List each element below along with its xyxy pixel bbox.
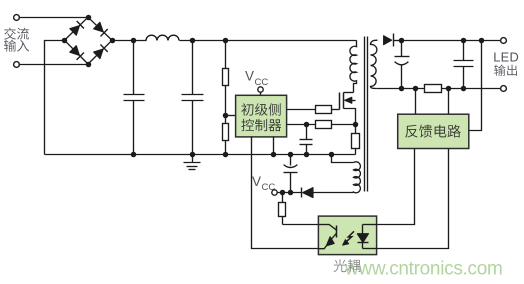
MOSFET Q1 source lead <box>344 109 356 125</box>
transformer T1 primary winding <box>350 40 357 92</box>
wire: R6 to optocoupler collector <box>283 224 319 226</box>
optocoupler LED <box>362 225 364 234</box>
output capacitor C5 (polarized) <box>401 41 403 57</box>
inductor L1 <box>146 35 179 40</box>
optocoupler U2 box (光耦) <box>318 216 376 255</box>
junction: VCC at R6 <box>280 190 286 196</box>
junction: bridge right node <box>110 38 116 44</box>
resistor R5 (source sense) <box>355 125 357 134</box>
wire: bridge negative node to bottom rail <box>45 41 65 155</box>
resistor R7 (output current sense) <box>425 85 442 93</box>
wire: bottom AC terminal to bridge bottom node <box>19 64 89 66</box>
LED output terminal (-) <box>501 86 507 92</box>
wire: R1 to divider node <box>225 86 227 116</box>
filter capacitor C1 <box>133 41 135 95</box>
diode D5 (VCC rectifier) <box>303 188 313 198</box>
output rectifier D6 <box>384 36 392 45</box>
junction: C1 bottom <box>131 152 137 158</box>
wire: primary ground bottom rail <box>45 154 356 156</box>
transformer T1 core <box>364 37 366 192</box>
optocoupler phototransistor <box>319 224 330 226</box>
resistor R2 <box>225 116 227 124</box>
filter capacitor C2 <box>192 41 194 95</box>
wire: output return rail (right part) <box>442 88 501 90</box>
bridge diode D1 (left to top) <box>70 26 80 36</box>
wire: sense right tap to feedback <box>448 89 450 115</box>
bridge rectifier frame <box>65 17 113 64</box>
VCC capacitor C4 <box>290 155 292 166</box>
junction: VCC at C4 <box>288 190 294 196</box>
ground symbol <box>192 155 194 163</box>
capacitor C3 (CS filter) <box>306 125 308 140</box>
resistor R6 (opto bias) <box>282 193 284 203</box>
resistor R1 <box>223 69 229 86</box>
bridge diode D4 (bottom to right) <box>94 49 104 59</box>
MOSFET Q1 drain lead <box>344 92 354 94</box>
svg-text:V: V <box>245 69 254 84</box>
AC input terminal (bottom) <box>14 62 20 68</box>
wire: controller gate pin <box>287 109 316 111</box>
junction: sense left tap <box>413 86 419 92</box>
junction: C6 top <box>461 38 467 44</box>
bridge diode D3 (left to bottom) <box>70 46 80 56</box>
junction: aux return at rail <box>329 152 335 158</box>
LED output terminal (+) <box>501 38 507 44</box>
wire: controller CS pin <box>287 124 316 126</box>
wire: opto LED anode to feedback <box>377 149 415 225</box>
wire: controller pin to optocoupler cathode <box>252 137 319 249</box>
junction: C4 at rail <box>288 152 294 158</box>
label: AC input 交流输入 <box>4 28 16 40</box>
primary-side controller U1 (初级侧控制器) <box>236 95 287 137</box>
svg-text:V: V <box>252 174 261 189</box>
wire: top rail to R1 <box>225 41 227 69</box>
transformer T1 auxiliary winding <box>354 162 361 193</box>
label: 光耦 <box>334 259 347 272</box>
wire: VCC node <box>277 192 302 194</box>
junction: bridge top node <box>86 15 92 21</box>
wire: sense left tap to feedback <box>415 89 417 115</box>
wire: top AC terminal to bridge top node <box>19 17 89 19</box>
bridge diode D2 (top to right) <box>94 22 104 32</box>
wire: output positive rail <box>402 40 501 42</box>
junction: CS filter node <box>304 122 310 128</box>
junction: controller ground at rail <box>271 152 277 158</box>
wire: R4 to MOSFET source <box>332 124 356 126</box>
wire: controller ground pin <box>273 137 275 155</box>
wire: output return rail (left part) <box>377 88 425 90</box>
junction: C1 top <box>131 38 137 44</box>
resistor R3 (gate) <box>316 106 332 114</box>
wire: opto LED cathode to feedback <box>377 149 449 249</box>
MOSFET Q1 channel bar <box>343 93 345 109</box>
junction: feedback tap at top rail <box>479 38 485 44</box>
junction: C6 bottom <box>461 86 467 92</box>
output capacitor C6 <box>463 41 465 61</box>
junction: R2 bottom at rail <box>223 152 229 158</box>
junction: bridge left node <box>62 38 68 44</box>
junction: divider node <box>223 113 229 119</box>
wire: feedback voltage tap <box>469 41 482 131</box>
junction: C2 bottom <box>190 152 196 158</box>
feedback circuit block (反馈电路) <box>398 114 469 148</box>
optocoupler light arrow <box>345 231 354 242</box>
wire: top rail (inductor to transformer primary) <box>180 40 357 42</box>
junction: C2 top <box>190 38 196 44</box>
junction: MOSFET source node <box>353 122 359 128</box>
wire: aux winding top to ground rail <box>332 155 354 163</box>
wire: divider node to controller <box>226 115 236 117</box>
junction: sense right tap <box>446 86 452 92</box>
junction: C3 at rail <box>304 152 310 158</box>
MOSFET Q1 gate bar <box>339 93 341 110</box>
junction: bridge bottom node <box>86 62 92 68</box>
junction: D6 cathode node <box>399 38 405 44</box>
AC input terminal (top) <box>14 15 20 21</box>
wire: rectified DC top rail (bridge to inductor) <box>113 40 147 42</box>
wire: R3 to MOSFET gate <box>332 109 340 111</box>
transformer T1 secondary winding <box>371 40 378 88</box>
MOSFET Q1 body arrow <box>346 100 356 102</box>
svg-text:LED: LED <box>493 49 519 64</box>
resistor R4 (current sense) <box>316 121 332 129</box>
svg-text:www.cntronics.com: www.cntronics.com <box>344 259 503 280</box>
junction: C5 bottom at rail <box>399 86 405 92</box>
junction: R1 top at rail <box>223 38 229 44</box>
